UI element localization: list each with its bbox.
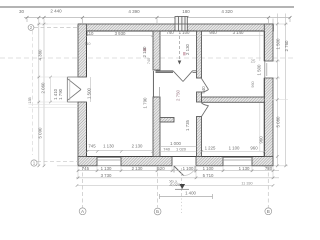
svg-text:1 020: 1 020 xyxy=(176,146,187,151)
svg-text:1 500: 1 500 xyxy=(276,38,281,49)
svg-text:1 500: 1 500 xyxy=(257,64,262,75)
axis A dashed xyxy=(82,166,84,208)
door leaf xyxy=(174,166,184,176)
interior horizontal wall xyxy=(202,97,265,102)
left room bottom chain xyxy=(86,150,154,153)
svg-text:5 080: 5 080 xyxy=(276,116,281,127)
bottom row 1 xyxy=(77,170,279,172)
axis V(В) dashed xyxy=(267,166,269,208)
top wall left segment xyxy=(78,24,273,31)
svg-text:25: 25 xyxy=(251,59,256,64)
svg-text:2 130: 2 130 xyxy=(132,166,143,171)
bottom row 3 (total) xyxy=(77,184,273,186)
svg-text:Б: Б xyxy=(156,209,159,214)
svg-text:960: 960 xyxy=(259,136,264,144)
level mark under entrance xyxy=(169,168,189,213)
corridor partition with splayed opening xyxy=(156,71,174,73)
top dimension ticks xyxy=(26,16,292,19)
bottom-right room chain xyxy=(201,150,266,153)
svg-text:1 100: 1 100 xyxy=(183,166,194,171)
svg-text:135: 135 xyxy=(28,97,32,103)
right wall inner face emphasis xyxy=(263,31,265,61)
svg-text:В: В xyxy=(267,209,270,214)
axis column dashed vertical at x=33 xyxy=(32,31,34,156)
top wall right segment xyxy=(187,24,273,31)
svg-text:4 390: 4 390 xyxy=(128,9,140,14)
red marker 1 xyxy=(144,48,147,51)
svg-text:3 930: 3 930 xyxy=(115,31,126,36)
bottom window left xyxy=(97,157,121,165)
corridor / top-right room top chain xyxy=(160,35,264,37)
svg-text:5 090: 5 090 xyxy=(38,127,43,138)
svg-text:1 790: 1 790 xyxy=(143,97,148,108)
right wall upper segment xyxy=(264,24,273,61)
svg-text:1 400: 1 400 xyxy=(185,191,196,196)
left room left vertical chain (window) xyxy=(90,77,92,102)
bottom row 2 xyxy=(76,177,279,179)
entrance door opening xyxy=(172,166,196,176)
top wall inner face xyxy=(78,30,273,32)
svg-text:1 735: 1 735 xyxy=(185,119,190,130)
svg-text:745: 745 xyxy=(88,143,96,148)
top dimension line xyxy=(24,18,291,24)
svg-text:-0,020: -0,020 xyxy=(169,182,181,187)
svg-text:960: 960 xyxy=(251,81,255,87)
svg-text:1 100: 1 100 xyxy=(203,166,214,171)
bottom window right xyxy=(223,157,252,165)
svg-text:2 440: 2 440 xyxy=(50,8,62,13)
left room top chain xyxy=(86,34,154,37)
svg-text:740: 740 xyxy=(166,30,174,35)
svg-text:3 730: 3 730 xyxy=(101,173,112,178)
svg-text:1 500: 1 500 xyxy=(87,87,92,98)
svg-text:1 790: 1 790 xyxy=(58,88,63,99)
left wall inner face emphasis xyxy=(86,31,88,77)
svg-text:740: 740 xyxy=(147,58,151,64)
window outside dim chain xyxy=(50,77,52,102)
axis circle В xyxy=(265,208,272,215)
svg-text:520: 520 xyxy=(157,166,165,171)
svg-text:4 320: 4 320 xyxy=(221,9,233,14)
svg-text:30: 30 xyxy=(19,9,25,14)
svg-text:5 710: 5 710 xyxy=(203,173,214,178)
axis circle 1 xyxy=(31,160,37,166)
corridor bottom chain xyxy=(160,146,197,151)
svg-text:2 130: 2 130 xyxy=(132,143,143,148)
left wall upper segment xyxy=(78,24,87,77)
svg-text:780: 780 xyxy=(265,166,273,171)
right wall lower segment xyxy=(264,78,273,166)
svg-text:1 100: 1 100 xyxy=(229,146,240,151)
svg-text:180: 180 xyxy=(182,9,190,14)
svg-text:1 100: 1 100 xyxy=(179,30,190,35)
svg-text:2 760: 2 760 xyxy=(284,40,289,51)
short bottom dim line under door xyxy=(160,194,213,199)
bottom wall inner face emphasis xyxy=(87,156,154,158)
page frame top border line xyxy=(0,6,294,8)
axis circle A xyxy=(79,208,86,215)
svg-text:745: 745 xyxy=(82,166,90,171)
extension lines down xyxy=(78,166,273,179)
bottom wall segments xyxy=(78,157,97,166)
svg-text:3 140: 3 140 xyxy=(233,30,244,35)
left window niche xyxy=(67,77,86,102)
axis circle Б xyxy=(154,208,161,215)
svg-text:940: 940 xyxy=(209,30,217,35)
svg-text:1 225: 1 225 xyxy=(205,146,216,151)
wall2 door B swing xyxy=(202,103,209,117)
axis 1 line xyxy=(37,160,78,162)
svg-text:940: 940 xyxy=(201,86,206,94)
top-right room right vertical text xyxy=(259,32,261,61)
svg-text:740: 740 xyxy=(163,146,170,151)
svg-text:2 750: 2 750 xyxy=(175,89,180,100)
corridor stub wall xyxy=(160,118,174,123)
left wall lower segment xyxy=(78,102,87,166)
red marker 2 xyxy=(183,52,186,55)
svg-text:1 130: 1 130 xyxy=(101,166,112,171)
svg-text:960: 960 xyxy=(250,146,258,151)
interior wall 2 stub xyxy=(197,92,202,102)
chimney shaft on top wall xyxy=(175,17,187,32)
interior wall 2 lower xyxy=(197,117,202,157)
svg-text:110: 110 xyxy=(84,42,90,46)
interior wall 1 lower xyxy=(153,97,160,157)
svg-text:1 130: 1 130 xyxy=(103,143,114,148)
axis circle 2 xyxy=(28,25,34,31)
right column ticks xyxy=(276,23,287,167)
svg-text:2 130: 2 130 xyxy=(142,46,147,57)
wall2 door A swing xyxy=(202,79,209,93)
interior wall 2 upper xyxy=(197,31,202,78)
svg-text:11 330: 11 330 xyxy=(241,182,252,186)
svg-text:1 130: 1 130 xyxy=(239,166,250,171)
top dimension texts xyxy=(19,8,233,14)
svg-text:4 380: 4 380 xyxy=(38,49,43,60)
horizontal dashed reference line y=57 xyxy=(0,57,294,59)
axis 2 line xyxy=(34,27,78,29)
left column ticks xyxy=(38,23,46,167)
section dashed line with down arrow xyxy=(178,36,182,65)
svg-text:110: 110 xyxy=(87,31,95,36)
svg-text:2 060: 2 060 xyxy=(41,82,46,93)
right window xyxy=(264,61,273,78)
axis B(Б) dashed xyxy=(157,166,159,208)
svg-text:2 130: 2 130 xyxy=(185,43,190,54)
interior wall 1 upper xyxy=(153,31,160,70)
